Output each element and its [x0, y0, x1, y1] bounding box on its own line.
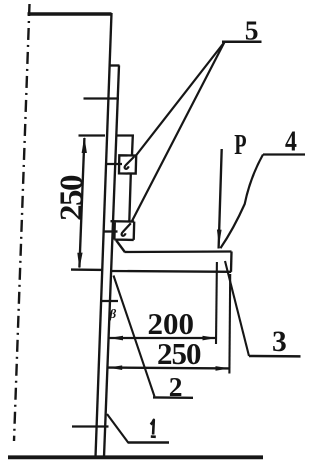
- svg-text:250: 250: [54, 175, 90, 221]
- label 2 underline: [153, 396, 193, 399]
- extension line for 250 dim: [228, 274, 231, 374]
- label 5 leader line to lower clamp: [132, 42, 225, 221]
- label 3 underline: [249, 355, 301, 358]
- svg-text:β: β: [109, 306, 117, 321]
- dim 200: left arrow: [109, 336, 123, 341]
- label 1 underline: [128, 441, 169, 444]
- tick on pole y426: [72, 425, 109, 427]
- label 5 leader line to upper clamp: [135, 42, 225, 157]
- lower clamp box: [111, 221, 135, 240]
- dim 200: line: [109, 337, 217, 339]
- dim 250: line: [108, 366, 229, 369]
- arm bottom edge: [111, 270, 231, 273]
- label 1: [151, 420, 156, 437]
- ground line: [8, 455, 263, 459]
- tick on pole y231: [105, 230, 118, 232]
- svg-text:5: 5: [245, 15, 259, 46]
- centerline (dash-dot axis of pole): [14, 4, 30, 441]
- label 1 leader line: [107, 414, 129, 443]
- force P arrowhead: [217, 230, 222, 246]
- svg-text:4: 4: [285, 126, 297, 157]
- tick on pole y99: [84, 97, 120, 99]
- svg-text:2: 2: [169, 371, 183, 402]
- label 4 underline: [263, 153, 305, 155]
- lower clamp bolt diagonal: [122, 223, 131, 236]
- dim 250 vertical: top tick: [79, 134, 106, 136]
- label 4 leader line: [220, 155, 263, 249]
- dim 250 vertical: up arrow: [82, 137, 87, 153]
- arm right edge: [230, 252, 233, 272]
- chamfer from lower clamp to arm: [116, 241, 125, 253]
- upper clamp lower box: [119, 155, 136, 173]
- pole left edge (line A): [96, 13, 112, 457]
- label 5 underline: [222, 41, 262, 44]
- dim 250: right arrow: [216, 366, 230, 371]
- top horizontal line: [28, 12, 112, 16]
- dim 250 vertical: line: [79, 138, 84, 268]
- label 2 leader line: [114, 276, 155, 397]
- force P arrow line: [219, 149, 222, 249]
- upper clamp bolt diagonal: [125, 157, 135, 169]
- dim 200: right arrow: [203, 336, 217, 341]
- tick on pole y301: [100, 300, 118, 302]
- svg-text:P: P: [234, 130, 246, 161]
- extension line for 200 dim: [215, 262, 218, 344]
- pole step at top of right edge: [110, 64, 120, 66]
- svg-text:3: 3: [272, 326, 287, 358]
- dim 250 vertical: down arrow: [77, 253, 82, 269]
- dim 250: left arrow: [108, 365, 122, 370]
- arm top edge: [125, 250, 232, 253]
- dim 250 vertical: bottom tick: [71, 268, 103, 271]
- tick on pole y164: [105, 163, 122, 165]
- svg-text:250: 250: [157, 336, 201, 371]
- bracket plate right edge between clamps: [129, 174, 131, 222]
- pole right edge (line B): [104, 66, 119, 458]
- upper clamp top box: [116, 136, 133, 156]
- label 3 leader line: [225, 261, 249, 356]
